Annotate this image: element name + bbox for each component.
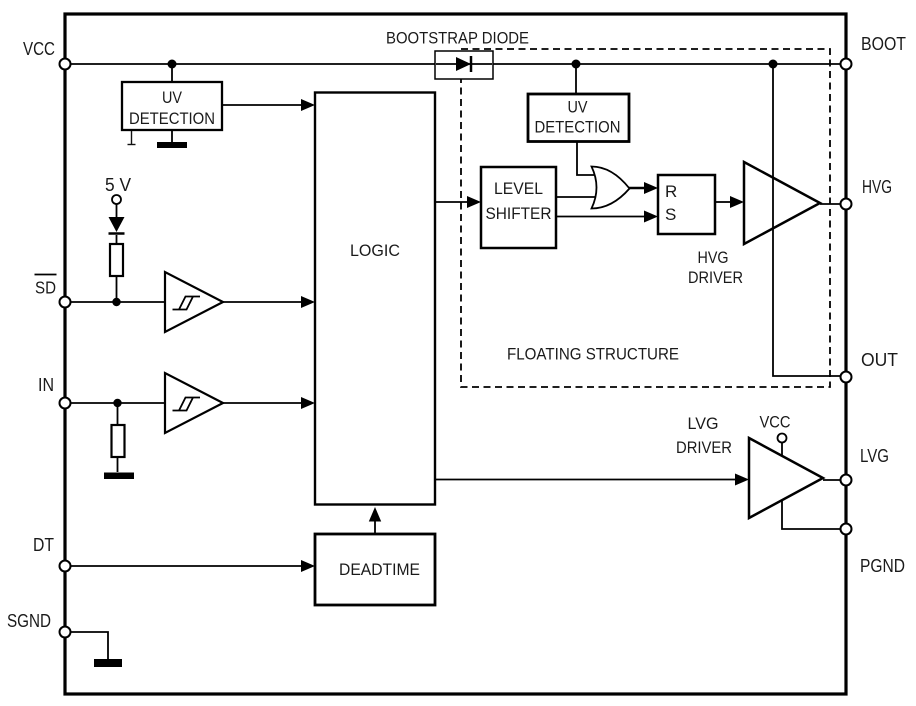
svg-text:VCC: VCC bbox=[23, 38, 55, 59]
node bootstrap/UV2 junction bbox=[572, 60, 581, 69]
resistor R1 (SD pull-up) bbox=[110, 244, 123, 276]
pin IN bbox=[60, 398, 71, 409]
pin PGND bbox=[841, 524, 852, 535]
pin BOOT bbox=[841, 59, 852, 70]
wire resistor R1 to SD line bbox=[116, 276, 118, 302]
svg-text:DRIVER: DRIVER bbox=[688, 268, 743, 287]
wire resistor R2 to ground bbox=[117, 457, 119, 472]
wire VCC junction to UV detection U1 bbox=[171, 64, 173, 82]
pin HVG bbox=[841, 199, 852, 210]
LOGIC block U4 bbox=[315, 93, 435, 505]
UV detection block U7 (floating) bbox=[528, 94, 629, 142]
wire SD pin to schmitt trigger U2 bbox=[71, 301, 165, 303]
svg-text:SGND: SGND bbox=[7, 610, 51, 631]
wire schmitt U2 to LOGIC with arrow bbox=[223, 301, 303, 303]
wire IN pin to schmitt trigger U3 bbox=[71, 402, 165, 404]
wire 5V to diode D2 bbox=[116, 204, 118, 217]
LVG driver amplifier U11 bbox=[749, 438, 823, 518]
svg-text:BOOT: BOOT bbox=[861, 33, 906, 54]
wire OR gate to RS latch with arrow bbox=[629, 187, 646, 190]
cursor artifact bbox=[128, 131, 136, 145]
node bootstrap/HVG-driver junction bbox=[769, 60, 778, 69]
svg-text:DETECTION: DETECTION bbox=[535, 119, 621, 137]
svg-text:LOGIC: LOGIC bbox=[350, 241, 400, 260]
resistor R2 (IN pull-down) bbox=[112, 425, 125, 457]
wire schmitt U3 to LOGIC with arrow bbox=[223, 402, 303, 404]
wire LOGIC to level shifter with arrow bbox=[435, 201, 468, 203]
node SD junction bbox=[112, 298, 120, 306]
wire level shifter to OR gate bbox=[556, 196, 600, 198]
svg-text:UV: UV bbox=[568, 99, 588, 117]
OR gate U8 bbox=[592, 167, 630, 209]
wire LOGIC to LVG driver with arrow bbox=[435, 479, 736, 481]
svg-text:VCC: VCC bbox=[760, 413, 791, 432]
wire UV detection U1 to ground bbox=[171, 130, 173, 143]
wire DT pin to deadtime with arrow bbox=[71, 565, 302, 567]
wire RS latch to HVG driver with arrow bbox=[715, 201, 731, 203]
wire UV detection U7 to OR gate bbox=[577, 141, 596, 175]
bootstrap diode D1 bbox=[435, 51, 493, 79]
wire HVG driver output to HVG pin bbox=[820, 203, 841, 205]
schmitt trigger U2 (SD input) bbox=[165, 272, 223, 332]
svg-text:DEADTIME: DEADTIME bbox=[339, 560, 420, 579]
pin VCC bbox=[60, 59, 71, 70]
svg-text:BOOTSTRAP DIODE: BOOTSTRAP DIODE bbox=[386, 29, 529, 48]
wire boot rail to UV detection U7 bbox=[575, 64, 577, 95]
wire LVG driver to PGND pin bbox=[782, 500, 841, 529]
svg-text:R: R bbox=[665, 182, 677, 201]
wire VCC supply to LVG driver bbox=[781, 443, 783, 459]
DEADTIME block U5 bbox=[315, 534, 435, 605]
svg-text:OUT: OUT bbox=[861, 349, 898, 370]
floating structure dashed boundary bbox=[461, 49, 830, 387]
svg-text:PGND: PGND bbox=[860, 555, 905, 576]
svg-text:SHIFTER: SHIFTER bbox=[486, 205, 552, 223]
wire SGND pin to ground bbox=[71, 632, 108, 660]
svg-text:IN: IN bbox=[38, 374, 54, 395]
svg-text:LVG: LVG bbox=[860, 445, 889, 466]
svg-text:LEVEL: LEVEL bbox=[494, 180, 543, 198]
wire VCC rail bbox=[71, 63, 841, 65]
svg-text:FLOATING STRUCTURE: FLOATING STRUCTURE bbox=[507, 345, 679, 364]
wire UV detection U1 to LOGIC with arrow bbox=[222, 104, 303, 106]
wire DEADTIME to LOGIC with up arrow bbox=[374, 520, 376, 534]
wire LVG driver output to LVG pin bbox=[823, 479, 841, 481]
wire level shifter to RS latch S input with arrow bbox=[556, 216, 646, 218]
ground (resistor R2) bbox=[104, 473, 134, 480]
ground (UV detection U1) bbox=[157, 142, 187, 148]
HVG driver amplifier U10 bbox=[744, 162, 820, 244]
pin OUT bbox=[841, 372, 852, 383]
svg-text:SD: SD bbox=[35, 278, 56, 298]
svg-text:S: S bbox=[665, 205, 676, 224]
pin LVG bbox=[841, 475, 852, 486]
UV detection block U1 bbox=[122, 82, 222, 130]
wire boot junction down through HVG driver to OUT bbox=[773, 64, 841, 376]
svg-text:HVG: HVG bbox=[698, 248, 729, 267]
ground (SGND) bbox=[94, 659, 122, 667]
pin SD (active low) bbox=[60, 297, 71, 308]
svg-text:UV: UV bbox=[162, 89, 182, 107]
svg-text:LVG: LVG bbox=[688, 414, 719, 433]
node VCC/UV junction bbox=[168, 60, 177, 69]
wire IN junction to resistor R2 bbox=[117, 403, 119, 425]
svg-text:HVG: HVG bbox=[862, 176, 892, 197]
svg-text:5 V: 5 V bbox=[105, 174, 132, 195]
svg-text:DETECTION: DETECTION bbox=[129, 110, 215, 128]
wire diode D2 to resistor R1 bbox=[116, 235, 118, 244]
diode D2 (pull-up clamp) bbox=[109, 217, 125, 234]
pin SGND bbox=[60, 627, 71, 638]
pin DT bbox=[60, 561, 71, 572]
svg-text:DT: DT bbox=[33, 534, 54, 555]
level shifter block U6 bbox=[481, 167, 556, 248]
RS latch U9 bbox=[658, 175, 715, 234]
node IN junction bbox=[113, 399, 121, 407]
svg-text:DRIVER: DRIVER bbox=[676, 438, 732, 457]
schmitt trigger U3 (IN input) bbox=[165, 373, 223, 433]
